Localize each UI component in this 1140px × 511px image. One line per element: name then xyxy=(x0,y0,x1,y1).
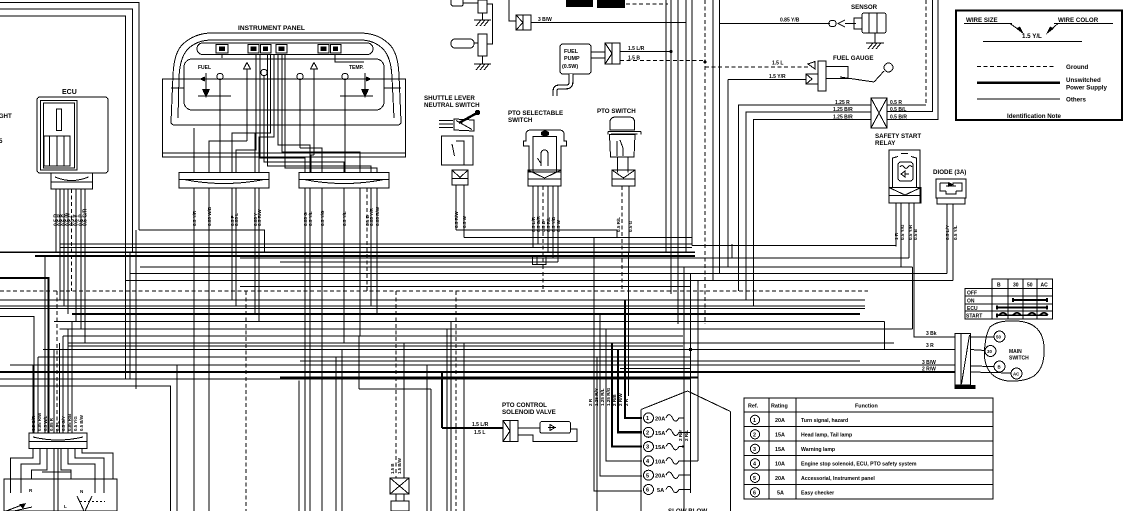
svg-text:SHUTTLE LEVER: SHUTTLE LEVER xyxy=(424,95,475,102)
svg-text:Head lamp, Tail lamp: Head lamp, Tail lamp xyxy=(801,432,852,438)
wire fuse rail B xyxy=(690,274,692,494)
panel right connector wire labels xyxy=(303,206,380,226)
svg-text:15A: 15A xyxy=(775,432,785,438)
wire PTO selectable 3 dashed xyxy=(542,186,544,291)
shuttle wire labels xyxy=(454,211,467,228)
wire drop x342 xyxy=(341,350,343,511)
svg-text:B: B xyxy=(998,365,1001,370)
glow plug upper xyxy=(451,0,487,20)
wire fuse out 6 xyxy=(682,489,691,491)
svg-text:FUEL: FUEL xyxy=(198,65,211,71)
wire bus y343 xyxy=(68,342,894,344)
temp gauge needle symbol xyxy=(340,73,378,98)
wire drop x299 xyxy=(298,381,300,511)
wire PTO selectable 1 xyxy=(532,186,534,248)
wire drop x336b xyxy=(335,357,337,511)
PTO selectable connector xyxy=(528,170,561,186)
svg-text:30: 30 xyxy=(1013,283,1019,289)
diode wire labels xyxy=(945,225,958,240)
PTO switch body xyxy=(608,117,641,173)
junction ground dashed xyxy=(703,60,706,63)
fuse table xyxy=(744,398,993,499)
svg-text:START: START xyxy=(966,314,982,320)
svg-text:Power Supply: Power Supply xyxy=(1066,85,1107,92)
wire shuttle 1 xyxy=(455,185,457,230)
wire bus y273 xyxy=(130,273,947,275)
svg-text:L: L xyxy=(64,504,67,509)
instrument panel inner shell xyxy=(178,40,394,118)
wire ECU 5 dashed ground xyxy=(71,189,73,291)
svg-text:0.85 R: 0.85 R xyxy=(49,417,54,431)
ECU xyxy=(37,89,108,173)
ground symbol lower plug xyxy=(474,64,491,70)
wire bus y379 xyxy=(0,378,691,380)
wire vert x713 xyxy=(712,0,714,281)
fuse box outline xyxy=(641,391,731,511)
svg-text:(0.5W): (0.5W) xyxy=(562,64,578,70)
fuse rail labels xyxy=(678,430,689,442)
svg-text:Ref.: Ref. xyxy=(748,404,759,410)
wires connector to switch staircase xyxy=(11,449,114,511)
wire vert x728 fuel gauge xyxy=(727,80,729,268)
svg-text:Accessorial, Instrument panel: Accessorial, Instrument panel xyxy=(801,476,875,482)
svg-text:INSTRUMENT PANEL: INSTRUMENT PANEL xyxy=(238,25,305,32)
combination switch connector xyxy=(29,433,87,449)
svg-text:Easy checker: Easy checker xyxy=(801,490,834,496)
wire fuse out 4 xyxy=(682,460,698,462)
wire PTO selectable 4 xyxy=(547,186,549,253)
wire drop x427 xyxy=(426,365,428,511)
wire panel right 4 xyxy=(343,188,345,343)
wire beside ground drop xyxy=(403,343,405,478)
wire main switch 50 xyxy=(970,336,994,338)
wire drop x464b xyxy=(463,343,465,511)
svg-text:1: 1 xyxy=(646,416,649,422)
wire bus y286 xyxy=(240,286,690,288)
svg-text:0.85 Y/B: 0.85 Y/B xyxy=(780,18,800,24)
wire relay leg B xyxy=(900,203,902,267)
safety start relay body xyxy=(889,150,921,203)
svg-text:3: 3 xyxy=(753,447,756,453)
wire panel right 5 xyxy=(359,188,361,336)
wire bus y336 xyxy=(63,335,683,337)
svg-text:3 Bk: 3 Bk xyxy=(926,331,937,337)
fuse 4 10A xyxy=(644,456,683,466)
svg-text:20A: 20A xyxy=(775,418,785,424)
svg-text:PUMP: PUMP xyxy=(564,56,580,62)
wire panel left 4 xyxy=(235,188,237,306)
wire extra drop 2 xyxy=(628,252,630,396)
wire bus y372 thick xyxy=(0,371,955,373)
svg-text:2: 2 xyxy=(646,430,649,436)
wire corner x884 xyxy=(884,322,886,350)
wire PTO switch solid xyxy=(628,186,630,253)
panel arrow stub 5 xyxy=(311,63,318,156)
svg-text:5: 5 xyxy=(753,476,756,482)
legend box xyxy=(956,11,1122,121)
main switch xyxy=(984,321,1044,381)
wire vert x698 xyxy=(697,281,699,447)
panel lamp stub 1 xyxy=(217,73,223,173)
main switch wire labels xyxy=(922,331,937,373)
fuse 6 5A xyxy=(644,485,683,495)
wire bus y365 xyxy=(10,364,955,366)
solenoid valve connector xyxy=(503,421,518,442)
svg-text:Turn signal, hazard: Turn signal, hazard xyxy=(801,418,848,424)
wire ground drop to connector dashed xyxy=(395,291,397,478)
svg-text:FUEL GAUGE: FUEL GAUGE xyxy=(833,55,873,62)
combination switch connector wire labels xyxy=(31,412,84,431)
svg-text:6: 6 xyxy=(753,490,756,496)
svg-text:FUEL: FUEL xyxy=(564,49,579,55)
wire drop x442 solenoid feed xyxy=(441,372,443,428)
svg-text:15A: 15A xyxy=(775,447,785,453)
svg-text:Rating: Rating xyxy=(771,404,788,410)
svg-text:TEMP.: TEMP. xyxy=(349,65,364,71)
wire vert x719 xyxy=(719,0,721,274)
wire comb drop 1 xyxy=(44,255,46,433)
panel arrow stub 2 xyxy=(244,63,251,142)
wire bus y306 xyxy=(0,305,865,307)
wire 3 B/W to bundle xyxy=(531,22,686,24)
wire bus thick band 2 xyxy=(35,255,695,257)
solenoid valve wire labels xyxy=(472,422,489,436)
left group box outline xyxy=(0,317,34,434)
svg-text:5A: 5A xyxy=(777,490,784,496)
panel lamp stub 4 xyxy=(297,73,303,148)
wire bus y247 xyxy=(60,247,692,249)
instrument panel outer rectangle xyxy=(163,79,406,157)
svg-text:Engine stop solenoid, ECU, P: Engine stop solenoid, ECU, PTO safety sy… xyxy=(801,461,917,467)
wire vert x666 xyxy=(665,0,667,253)
wire sensor feed xyxy=(720,23,831,25)
ground symbol sensor xyxy=(866,43,884,49)
wire relay feed 1 xyxy=(739,105,872,291)
svg-text:ECU: ECU xyxy=(967,306,978,312)
wire bus y389 left xyxy=(0,386,171,511)
wire 1.5 Y/R xyxy=(728,79,806,81)
wire bus y267 xyxy=(140,266,913,268)
inline connector labels xyxy=(390,457,402,474)
ECU wire labels xyxy=(54,208,89,226)
svg-text:Function: Function xyxy=(855,404,878,410)
wire bus y300 xyxy=(0,299,865,301)
wire panel right 1 xyxy=(304,188,306,511)
black component at top edge xyxy=(566,0,668,8)
wire ECU 1 xyxy=(55,189,57,253)
svg-text:SWITCH: SWITCH xyxy=(1009,356,1029,362)
svg-text:SENSOR: SENSOR xyxy=(851,4,878,11)
connector 3 B/W xyxy=(509,0,531,30)
instrument panel connector right xyxy=(299,173,389,189)
wire corner x912 xyxy=(912,267,914,329)
svg-text:2 R/L: 2 R/L xyxy=(684,430,689,441)
svg-text:AC: AC xyxy=(1013,372,1020,377)
svg-text:10A: 10A xyxy=(655,459,665,465)
svg-text:Unswitched: Unswitched xyxy=(1066,77,1101,84)
wire drop x359 xyxy=(358,336,360,389)
svg-text:15A: 15A xyxy=(655,445,665,451)
shuttle switch connector xyxy=(452,170,468,185)
wire vert x678 xyxy=(677,0,679,324)
wire fuse feed 4 xyxy=(606,329,642,461)
wire fuse out 2 xyxy=(682,431,691,433)
glow plug lower xyxy=(451,4,493,64)
svg-text:1.5 L: 1.5 L xyxy=(474,430,485,436)
relay wire labels xyxy=(894,224,918,240)
wire pump 1.5 L/R xyxy=(620,51,671,53)
wire y230 segment right xyxy=(456,230,617,238)
svg-text:NEUTRAL SWITCH: NEUTRAL SWITCH xyxy=(424,102,480,109)
wire relay leg D to main switch xyxy=(914,203,955,337)
wire vert x692 xyxy=(691,0,693,246)
wire panel left 5 xyxy=(254,188,256,314)
wire comb drop extra2 xyxy=(32,365,34,433)
svg-text:WIRE SIZE: WIRE SIZE xyxy=(966,17,998,24)
wire bus y377 thick xyxy=(280,376,698,378)
fuel gauge needle symbol xyxy=(193,73,231,98)
svg-text:PTO CONTROL: PTO CONTROL xyxy=(502,402,547,409)
panel left connector wire labels xyxy=(192,206,262,226)
fuse 3 15A xyxy=(644,442,683,452)
wire bus y361 xyxy=(300,360,860,362)
wire panel right 6 dashed xyxy=(366,188,368,291)
wire fuse feed 2 xyxy=(618,350,642,433)
wire diode leg 1 xyxy=(946,204,948,274)
wire drop x431 xyxy=(430,389,432,511)
wire bus y308 xyxy=(0,308,865,310)
svg-text:Warning lamp: Warning lamp xyxy=(801,447,835,453)
combination switch body xyxy=(4,472,117,511)
svg-text:1.25 R/L: 1.25 R/L xyxy=(600,388,605,406)
wire ground drop x456 dashed xyxy=(455,291,457,511)
svg-text:DIODE (3A): DIODE (3A) xyxy=(933,169,966,176)
svg-text:Ground: Ground xyxy=(1066,64,1089,71)
wire PTO switch dashed xyxy=(621,186,623,291)
wire panel right 7 xyxy=(370,188,372,306)
wire harness frame corner middle xyxy=(0,9,133,253)
PTO switch connector xyxy=(612,170,635,186)
svg-text:IGHT: IGHT xyxy=(0,113,12,120)
svg-text:50: 50 xyxy=(996,335,1001,340)
wire comb drop 3 dashed xyxy=(56,291,58,433)
wire relay feed 3 xyxy=(754,119,872,306)
inline connector on ground drop xyxy=(390,478,409,511)
wire drop x447 xyxy=(446,329,448,511)
relay connector output labels xyxy=(890,100,907,121)
safety start relay connector xyxy=(871,98,887,128)
wire panel right 8 xyxy=(376,188,378,314)
wire pump 1.5 B dashed xyxy=(620,60,705,62)
wire extra drop xyxy=(596,357,598,511)
relay feed labels xyxy=(833,100,853,121)
svg-text:ECU: ECU xyxy=(62,89,77,96)
svg-text:PTO SWITCH: PTO SWITCH xyxy=(597,108,636,115)
svg-text:Others: Others xyxy=(1066,97,1087,104)
wire bus y389 mid xyxy=(359,388,431,390)
svg-text:OFF: OFF xyxy=(967,291,977,297)
svg-text:0.5 Y/G: 0.5 Y/G xyxy=(73,416,78,431)
wire relay out 3 xyxy=(887,0,938,119)
PTO selectable switch body xyxy=(524,130,567,172)
junction pump wire xyxy=(669,50,672,53)
wire drop x451 xyxy=(450,322,452,511)
svg-text:MAIN: MAIN xyxy=(1009,349,1022,355)
wire comb staircase 5 xyxy=(53,350,55,434)
wire panel left 6 xyxy=(258,188,260,322)
wire drop x177 xyxy=(176,365,178,511)
panel inner bottom line xyxy=(163,152,406,154)
wire panel ground dashed xyxy=(245,291,247,511)
svg-text:1.5 L: 1.5 L xyxy=(772,61,783,67)
wire bus y349 to main switch xyxy=(43,349,955,351)
wire fuse feed 6 xyxy=(594,238,642,492)
fuse 5 20A xyxy=(644,470,683,480)
svg-text:0.5 B/W: 0.5 B/W xyxy=(79,414,84,431)
wire bus y230 xyxy=(139,230,265,252)
wire bus y329 xyxy=(60,328,913,330)
svg-text:2: 2 xyxy=(753,432,756,438)
ECU connector xyxy=(51,173,93,189)
wire ECU 4 xyxy=(67,189,69,314)
wire comb staircase 1 xyxy=(71,322,73,434)
wire ECU 7 xyxy=(80,189,82,329)
wire panel left 1 xyxy=(193,188,195,511)
wire panel right 3 xyxy=(321,188,323,511)
wire bus y280 xyxy=(126,280,954,282)
wire main switch 30 xyxy=(970,350,985,351)
fuel gauge sender xyxy=(806,61,893,91)
svg-text:1.5 B/W: 1.5 B/W xyxy=(397,457,402,474)
bullet connector pair xyxy=(829,20,856,27)
fuel pump pigtail xyxy=(555,74,571,96)
wire main switch B xyxy=(970,365,994,368)
wire relay leg C xyxy=(908,203,910,258)
wire fuse rail A xyxy=(683,267,685,511)
wire PTO selectable 6 xyxy=(557,186,559,262)
water temp sensor xyxy=(854,13,886,43)
wire 1.5 L dashed xyxy=(705,66,808,68)
wire bus y244 xyxy=(60,243,692,245)
wire bus y321 xyxy=(54,321,885,323)
wire bus y357 xyxy=(38,356,691,358)
wire vert x705 dashed ground xyxy=(704,0,706,324)
wire relay out 2 xyxy=(887,0,933,112)
wire bus y368 short xyxy=(620,368,691,370)
svg-text:SWITCH: SWITCH xyxy=(508,117,533,124)
svg-text:PTO SELECTABLE: PTO SELECTABLE xyxy=(508,110,563,117)
svg-text:0.5 Y/L: 0.5 Y/L xyxy=(953,225,958,240)
diode 3A xyxy=(936,179,966,204)
wire fuse feed 1 xyxy=(625,300,642,418)
wire harness frame corner outer xyxy=(0,3,139,231)
svg-text:5A: 5A xyxy=(657,488,664,494)
panel lamp stub 3 xyxy=(261,69,267,133)
svg-text:B: B xyxy=(997,283,1001,289)
wire comb drop 2 thick feed xyxy=(0,278,49,433)
svg-text:2 R/Y: 2 R/Y xyxy=(678,430,683,442)
instrument panel gauge face xyxy=(184,59,384,110)
svg-text:Identification Note: Identification Note xyxy=(1007,113,1062,120)
wire fuse rail C xyxy=(697,378,699,462)
fuse 2 15A xyxy=(644,427,683,437)
svg-text:RELAY: RELAY xyxy=(875,140,896,147)
svg-text:30: 30 xyxy=(987,349,992,354)
wire ECU 3 xyxy=(63,189,65,306)
wire ECU 8 xyxy=(84,189,86,343)
wire solenoid feed xyxy=(442,427,503,429)
wire relay feed 2 xyxy=(746,112,871,300)
shuttle lever symbol xyxy=(439,110,480,131)
wire fuse feed 3 xyxy=(612,343,642,447)
svg-text:3 R: 3 R xyxy=(926,343,934,349)
svg-text:20A: 20A xyxy=(655,474,665,480)
wire bus y245 right xyxy=(692,246,896,247)
PTO switch wire labels xyxy=(616,217,633,232)
junction bus dot xyxy=(689,348,693,352)
wire PTO selectable 5 xyxy=(552,186,554,258)
fuel pump connector xyxy=(591,43,620,64)
wire comb staircase 3 xyxy=(62,336,64,433)
svg-text:AC: AC xyxy=(1041,283,1049,289)
svg-text:1.25 R/G: 1.25 R/G xyxy=(606,387,611,406)
fuel pump xyxy=(560,44,591,74)
wire relay out 1 dashed up xyxy=(887,104,926,106)
wire harness frame corner inner xyxy=(0,16,126,379)
svg-text:20A: 20A xyxy=(655,416,665,422)
wire fuse out 5 xyxy=(682,474,691,476)
main switch connector xyxy=(955,334,976,390)
panel internal routing wires xyxy=(171,55,401,174)
panel lamp stub 6 xyxy=(342,73,348,173)
svg-text:5: 5 xyxy=(646,473,649,479)
wire bus thick band 1 xyxy=(0,251,695,253)
svg-text:1: 1 xyxy=(753,418,756,424)
wire panel left 3 xyxy=(231,188,233,300)
wire vert x686 xyxy=(685,0,687,253)
svg-text:50: 50 xyxy=(1027,283,1033,289)
wire PTO selectable 2 xyxy=(537,186,539,244)
wire main switch AC xyxy=(970,372,1011,373)
svg-text:0.5 B/L: 0.5 B/L xyxy=(890,107,906,113)
svg-text:15A: 15A xyxy=(655,431,665,437)
PTO control solenoid valve xyxy=(518,422,577,442)
wire comb staircase 4 xyxy=(59,343,61,433)
wire bus y237 xyxy=(464,237,692,239)
wire ECU 2 xyxy=(59,189,61,300)
instrument panel outer shell xyxy=(171,33,401,125)
svg-text:6: 6 xyxy=(646,488,649,494)
wire relay leg A xyxy=(895,203,897,247)
wire comb staircase 2 xyxy=(67,329,69,433)
wire shuttle bus junction xyxy=(670,50,672,52)
wire bus y258 xyxy=(240,257,909,259)
PTO selectable wire labels xyxy=(531,215,561,232)
wire fuse feed 5 xyxy=(600,314,642,476)
wire bus y314 thick xyxy=(72,313,860,315)
instrument panel connector left xyxy=(179,173,269,189)
wire vert x671 xyxy=(670,0,672,294)
wire ground bus dashed xyxy=(0,290,868,292)
svg-text:SOLENOID VALVE: SOLENOID VALVE xyxy=(502,409,556,416)
wire panel right 2 xyxy=(309,188,311,511)
wire frame continuation 2 xyxy=(129,253,131,379)
wire jog x732 xyxy=(731,244,733,258)
wire fuse out 3 xyxy=(682,446,684,448)
wire diode leg 2 xyxy=(952,204,954,281)
wire panel left 2 xyxy=(208,188,210,511)
fuse 1 20A xyxy=(644,413,683,423)
